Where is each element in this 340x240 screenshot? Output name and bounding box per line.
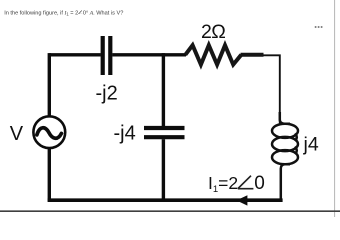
current arrow I1	[236, 195, 247, 205]
bottom separator	[0, 210, 340, 212]
resistor R1	[185, 45, 241, 64]
wire top-left segment	[49, 53, 100, 56]
question text	[4, 10, 123, 16]
capacitor C1 (-j2)	[103, 36, 111, 75]
svg-text:0: 0	[254, 173, 265, 194]
svg-text:I1=2: I1=2	[208, 173, 238, 195]
menu ellipsis	[315, 26, 323, 28]
svg-text:-j2: -j2	[96, 83, 118, 105]
wire left vertical bottom	[48, 148, 51, 202]
wire right-top corner	[263, 55, 280, 123]
inductor L1	[272, 112, 298, 201]
wire mid-branch bottom	[162, 139, 165, 200]
svg-text:j4: j4	[303, 134, 319, 156]
svg-text:V: V	[10, 123, 24, 145]
page right border	[334, 0, 336, 217]
capacitor C2 (-j4)	[144, 128, 185, 137]
wire top-mid segment	[112, 53, 186, 56]
source V1 circle	[33, 116, 65, 148]
source sine	[37, 128, 62, 139]
wire resistor right lead	[241, 53, 264, 57]
angle symbol	[238, 176, 254, 189]
wire mid-branch top	[162, 53, 165, 126]
svg-text:2Ω: 2Ω	[201, 21, 225, 43]
wire left vertical top	[48, 53, 51, 116]
svg-text:-j4: -j4	[114, 123, 136, 145]
wire bottom	[48, 198, 283, 202]
